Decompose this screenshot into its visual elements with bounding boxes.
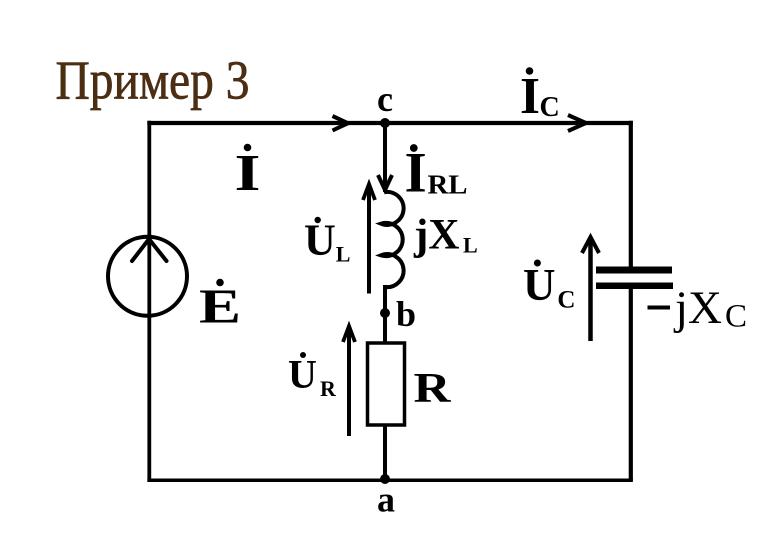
- svg-text:a: a: [377, 480, 395, 520]
- svg-text:jX: jX: [673, 282, 722, 334]
- arrow current IC on top wire: [568, 115, 586, 131]
- label E (dot): [216, 279, 224, 287]
- label IC (dot): [526, 67, 534, 75]
- svg-text:c: c: [377, 79, 393, 119]
- svg-text:C: C: [725, 299, 747, 335]
- wire top (c to left corner): [147, 121, 633, 125]
- svg-text:U: U: [288, 351, 317, 396]
- svg-text:U: U: [304, 216, 336, 265]
- label UL (dot): [315, 217, 321, 223]
- source arrow: [132, 239, 167, 261]
- svg-text:R: R: [414, 366, 452, 412]
- svg-text:I: I: [405, 142, 427, 205]
- source E circle: [108, 237, 187, 316]
- node a dot: [380, 474, 390, 484]
- wire inductor to b: [383, 285, 387, 343]
- svg-text:U: U: [523, 260, 556, 310]
- arrow UC: [588, 241, 593, 341]
- label UC (dot): [534, 260, 541, 267]
- label -jXC: [648, 306, 671, 310]
- arrow UR: [347, 328, 351, 436]
- svg-text:b: b: [396, 294, 416, 334]
- svg-text:L: L: [463, 233, 478, 258]
- svg-text:Пример 3: Пример 3: [56, 50, 250, 111]
- svg-text:jX: jX: [413, 212, 459, 259]
- wire resistor to a: [383, 425, 387, 479]
- label I (dot): [244, 144, 252, 152]
- svg-text:C: C: [540, 92, 560, 123]
- capacitor plate bottom: [596, 283, 673, 290]
- wire middle upper (c to inductor): [383, 123, 387, 193]
- wire right upper: [629, 121, 633, 267]
- inductor jXL: [381, 192, 404, 287]
- wire left: [147, 121, 151, 482]
- node c dot: [380, 118, 390, 128]
- resistor R: [368, 343, 405, 425]
- label UR (dot): [300, 352, 306, 358]
- svg-text:RL: RL: [428, 170, 468, 200]
- node b dot: [380, 308, 390, 318]
- arrow UL: [367, 186, 371, 294]
- capacitor plate top: [596, 267, 672, 274]
- svg-text:I: I: [520, 68, 540, 125]
- svg-text:C: C: [557, 286, 575, 313]
- svg-text:E: E: [199, 279, 241, 334]
- wire right lower: [629, 288, 633, 481]
- svg-text:I: I: [235, 145, 261, 202]
- svg-text:R: R: [320, 376, 337, 401]
- arrow current I on top wire: [333, 116, 349, 131]
- arrow current IRL downward: [378, 175, 392, 190]
- svg-text:L: L: [336, 241, 351, 266]
- label IRL (dot): [410, 144, 418, 152]
- wire bottom: [147, 478, 632, 482]
